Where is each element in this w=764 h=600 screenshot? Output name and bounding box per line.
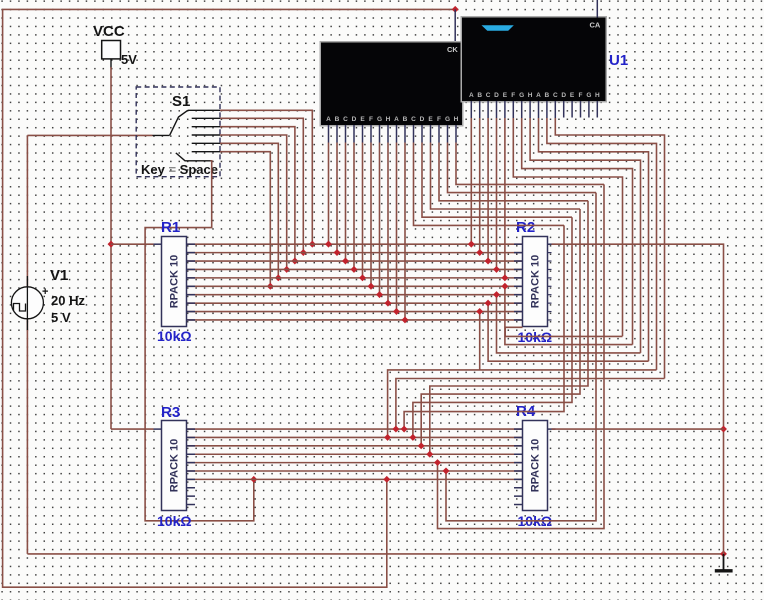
svg-text:H: H	[595, 92, 600, 99]
svg-text:R3: R3	[161, 404, 180, 421]
svg-text:A: A	[536, 92, 541, 99]
svg-text:5 V: 5 V	[51, 310, 71, 325]
svg-text:F: F	[369, 116, 373, 123]
svg-text:R1: R1	[161, 219, 180, 236]
svg-text:D: D	[352, 116, 357, 123]
svg-text:G: G	[377, 116, 382, 123]
svg-text:RPACK 10: RPACK 10	[530, 439, 542, 493]
svg-text:H: H	[386, 116, 391, 123]
svg-text:10kΩ: 10kΩ	[157, 328, 192, 344]
svg-text:H: H	[528, 92, 533, 99]
svg-text:A: A	[469, 92, 474, 99]
svg-text:U1: U1	[609, 52, 628, 69]
svg-text:E: E	[503, 92, 508, 99]
svg-text:Key = Space: Key = Space	[141, 162, 218, 177]
svg-text:E: E	[570, 92, 575, 99]
svg-text:V1: V1	[50, 267, 68, 284]
svg-text:D: D	[494, 92, 499, 99]
svg-text:B: B	[403, 116, 408, 123]
svg-text:R2: R2	[516, 219, 535, 236]
svg-text:5V: 5V	[121, 52, 137, 67]
svg-text:E: E	[428, 116, 433, 123]
svg-text:RPACK 10: RPACK 10	[169, 439, 181, 493]
svg-text:VCC: VCC	[93, 23, 125, 40]
svg-text:A: A	[394, 116, 399, 123]
svg-text:F: F	[579, 92, 583, 99]
svg-text:+: +	[42, 286, 48, 298]
svg-text:G: G	[445, 116, 450, 123]
svg-text:A: A	[326, 116, 331, 123]
svg-text:B: B	[545, 92, 550, 99]
svg-text:C: C	[411, 116, 416, 123]
svg-text:C: C	[343, 116, 348, 123]
svg-text:RPACK 10: RPACK 10	[169, 255, 181, 309]
svg-text:C: C	[486, 92, 491, 99]
svg-text:G: G	[586, 92, 591, 99]
svg-text:S1: S1	[172, 93, 190, 110]
svg-text:B: B	[477, 92, 482, 99]
svg-text:F: F	[437, 116, 441, 123]
svg-text:B: B	[335, 116, 340, 123]
svg-text:D: D	[561, 92, 566, 99]
svg-text:G: G	[519, 92, 524, 99]
svg-text:D: D	[420, 116, 425, 123]
svg-text:20 Hz: 20 Hz	[51, 293, 85, 308]
svg-text:CK: CK	[447, 45, 458, 54]
svg-text:10kΩ: 10kΩ	[157, 513, 192, 529]
svg-text:CA: CA	[590, 21, 601, 30]
svg-text:C: C	[553, 92, 558, 99]
svg-text:H: H	[454, 116, 459, 123]
svg-text:RPACK 10: RPACK 10	[530, 255, 542, 309]
svg-text:E: E	[360, 116, 365, 123]
svg-text:F: F	[511, 92, 515, 99]
